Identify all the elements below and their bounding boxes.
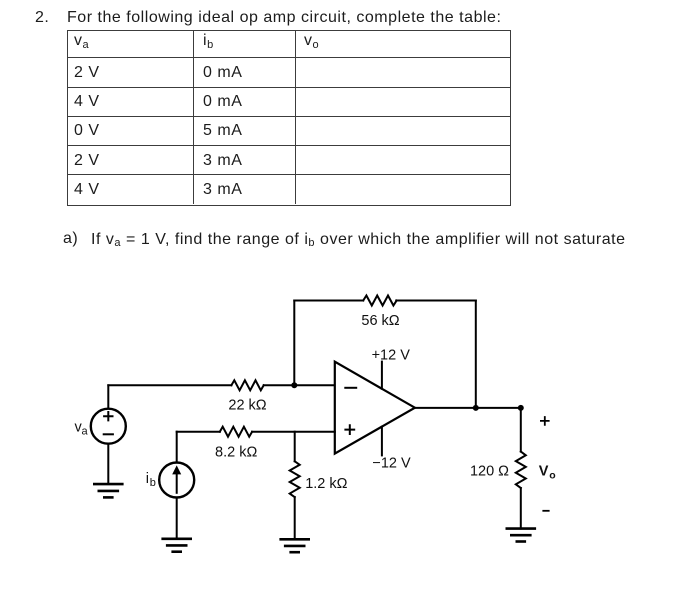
resistor 1.2 kOhm (vertical)	[290, 461, 300, 497]
svg-text:120 Ω: 120 Ω	[470, 463, 509, 479]
resistor 22 kOhm	[231, 380, 263, 390]
wire: ib bottom lead to ground	[176, 498, 178, 539]
ground (va)	[94, 484, 122, 497]
wire: load top lead down from output node	[520, 408, 522, 452]
horizontal dividers	[67, 57, 510, 58]
node: load corner junction (dot)	[518, 405, 524, 411]
ground (1.2k)	[281, 539, 309, 552]
table	[67, 30, 511, 206]
va plus sign	[104, 412, 112, 420]
op-amp U1 triangle	[335, 362, 415, 454]
label + (output polarity)	[541, 417, 549, 425]
wire: 22k to op-amp inverting input	[264, 384, 335, 386]
wire: feedback top horizontal left segment	[294, 300, 363, 302]
resistor 8.2 kOhm	[220, 427, 252, 437]
wire: feedback right vertical drop to output node	[475, 301, 477, 408]
op-amp non-inverting input plus sign	[345, 425, 354, 434]
data rows col 2	[203, 65, 242, 81]
node: feedback tap on output wire (dot)	[473, 405, 479, 411]
part a) line	[63, 231, 78, 247]
heading line	[35, 10, 49, 26]
op-amp -12V supply lead	[381, 427, 383, 456]
op-amp +12V supply lead	[381, 362, 383, 389]
svg-text:b: b	[150, 477, 156, 489]
va minus sign	[104, 433, 113, 435]
svg-text:8.2 kΩ: 8.2 kΩ	[215, 444, 257, 460]
op-amp inverting input minus sign	[345, 387, 356, 389]
svg-text:+12 V: +12 V	[372, 347, 411, 363]
svg-text:−12 V: −12 V	[372, 456, 411, 472]
vertical dividers	[193, 30, 194, 204]
svg-text:a: a	[82, 426, 89, 438]
wire: 8.2k to op-amp non-inverting input	[252, 431, 335, 433]
resistor 120 Ohm (vertical load)	[516, 452, 526, 488]
header cells	[74, 33, 89, 49]
ib arrow (upward)	[176, 473, 178, 493]
wire: 1.2k bottom lead to ground	[294, 497, 296, 539]
wire: load bottom lead to ground	[520, 488, 522, 529]
wire: op-amp output to load corner	[415, 407, 521, 409]
wire: va bottom lead to ground	[107, 444, 109, 484]
current source ib (circle)	[159, 463, 194, 498]
data rows col 1	[74, 65, 100, 81]
svg-text:22 kΩ: 22 kΩ	[228, 397, 266, 413]
label - (output polarity)	[543, 510, 548, 512]
wire: feedback left vertical riser	[293, 301, 295, 386]
wire: va source top lead up to inverting net	[107, 385, 109, 408]
wire: 1.2k top lead from non-inverting net	[294, 432, 296, 462]
ground (load)	[507, 529, 535, 542]
svg-text:o: o	[549, 470, 555, 482]
voltage source va (circle)	[91, 409, 126, 444]
svg-text:56 kΩ: 56 kΩ	[361, 313, 399, 329]
wire: inverting net horizontal from va corner to 22k resistor	[108, 384, 231, 386]
svg-text:i: i	[146, 471, 149, 487]
resistor 56 kOhm (feedback)	[363, 296, 396, 306]
ground (ib)	[163, 539, 191, 552]
svg-text:1.2 kΩ: 1.2 kΩ	[305, 476, 347, 492]
svg-text:V: V	[539, 463, 549, 479]
wire: non-inverting net horizontal to 8.2k	[177, 431, 220, 433]
node: feedback junction at inverting input (dot)	[291, 382, 297, 388]
wire: feedback top horizontal right segment	[396, 300, 476, 302]
wire: ib top lead up to non-inverting net	[176, 432, 178, 463]
